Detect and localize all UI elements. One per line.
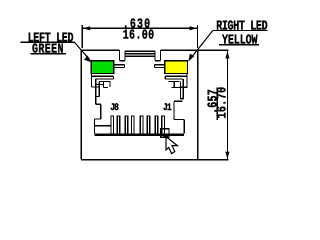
main rect top edge (right part) xyxy=(161,49,198,51)
dim line xyxy=(82,27,197,29)
label RIGHT LED xyxy=(213,20,268,49)
top dimension .630 / 16.00 xyxy=(82,18,197,48)
dim line xyxy=(226,51,228,159)
contact teeth xyxy=(110,115,165,133)
svg-text:RIGHT LED: RIGHT LED xyxy=(216,20,267,35)
extension line top xyxy=(198,49,229,51)
yellow LED xyxy=(165,61,188,74)
extension line bottom xyxy=(198,159,229,161)
leader to yellow LED xyxy=(188,30,213,61)
main rect top edge (left part) xyxy=(81,49,119,51)
left socket wall xyxy=(95,104,111,133)
extension line left xyxy=(81,25,83,48)
svg-text:GREEN: GREEN xyxy=(32,43,64,58)
svg-text:16.00: 16.00 xyxy=(123,29,155,44)
arrow left xyxy=(83,26,90,30)
main rect bottom edge xyxy=(81,159,198,161)
svg-text:16.70: 16.70 xyxy=(216,86,231,118)
fraction bar xyxy=(216,87,218,120)
socket bottom band xyxy=(95,134,185,136)
label LEFT LED xyxy=(21,32,75,58)
leader to green LED xyxy=(74,42,92,62)
right LED bezel steps xyxy=(165,74,187,87)
right latch slot xyxy=(180,79,183,99)
top center tab xyxy=(119,50,121,60)
green LED xyxy=(91,61,114,74)
connector body outline xyxy=(81,50,198,160)
arrow right xyxy=(190,26,197,30)
arrow up xyxy=(225,51,229,58)
slot lines between LEDs and tab xyxy=(114,65,165,68)
left latch slot xyxy=(96,79,100,104)
svg-text:J8: J8 xyxy=(110,102,119,113)
mouse cursor xyxy=(166,137,177,154)
svg-text:J1: J1 xyxy=(163,103,172,114)
main rect left edge xyxy=(80,50,82,160)
svg-text:YELLOW: YELLOW xyxy=(222,34,258,49)
right socket wall xyxy=(174,101,184,133)
left LED bezel steps xyxy=(91,74,113,87)
socket opening top corner stubs xyxy=(96,81,188,87)
pin1 highlight square xyxy=(161,129,169,138)
right dimension .657 / 16.70 (rotated) xyxy=(198,50,231,160)
arrow down xyxy=(225,152,229,159)
main rect right edge xyxy=(197,50,199,160)
extension line right xyxy=(197,25,199,48)
